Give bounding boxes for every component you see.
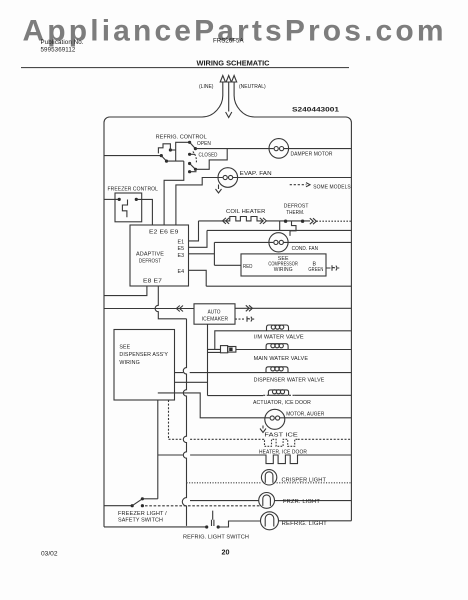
node freezer control left (118, 198, 121, 201)
svg-text:DISPENSER WATER VALVE: DISPENSER WATER VALVE (254, 378, 325, 384)
wire safety switch to freezer lamp (145, 505, 260, 507)
ground auger motor (260, 426, 266, 433)
some models dashed arrow (290, 184, 307, 186)
wire riser to OPEN top contact (176, 142, 190, 161)
svg-text:WIRING: WIRING (119, 360, 139, 366)
wire auger motor to neutral bus (285, 417, 352, 419)
node contact mid (188, 153, 191, 156)
svg-text:SAFETY SWITCH: SAFETY SWITCH (118, 517, 163, 523)
node OPEN top contact (188, 141, 191, 144)
svg-text:COIL HEATER: COIL HEATER (226, 209, 266, 215)
svg-text:(LINE): (LINE) (199, 84, 214, 90)
switch blade OPEN (190, 142, 196, 148)
heater ice door (teeth below wire) (264, 455, 298, 464)
switch blade freezer light / safety switch (132, 499, 142, 506)
wire E4 to riser (189, 270, 207, 286)
freezer thermostat squiggle (122, 200, 127, 218)
freezer control box (115, 193, 142, 222)
svg-text:FRS26F5A: FRS26F5A (213, 38, 244, 45)
wire crisper dotted row from vertical (187, 482, 352, 484)
ground evap fan (216, 185, 222, 194)
power cord plug prong NEUTRAL (232, 76, 237, 96)
wire heater ice door row (158, 454, 352, 456)
lamp crisper light (261, 470, 276, 485)
cord right curve to neutral bus (234, 96, 254, 118)
wire actuator to neutral bus (294, 394, 351, 396)
coil heater element (defrost heater) (222, 217, 262, 221)
svg-text:SEE: SEE (119, 344, 130, 350)
wire compressor RED feed (214, 264, 241, 266)
wire I/M valve branch riser (215, 331, 267, 350)
svg-text:E8 E7: E8 E7 (143, 279, 162, 285)
wire switch node to E6 riser (164, 161, 184, 225)
svg-text:E1: E1 (178, 239, 185, 245)
lamp freezer light (259, 493, 275, 509)
wire E5 riser (189, 230, 208, 247)
node refrig light switch left (205, 525, 208, 528)
wire top border right segment (255, 117, 352, 123)
actuator coil dashes (263, 394, 294, 396)
svg-text:E5: E5 (178, 246, 185, 252)
wire line bus to safety switch (104, 505, 132, 507)
wire icemaker to neutral bus (235, 307, 351, 309)
svg-text:I/M WATER VALVE: I/M WATER VALVE (254, 334, 304, 340)
node safety switch common (131, 504, 134, 507)
wire top border left segment (104, 117, 202, 123)
svg-text:WIRING: WIRING (274, 267, 293, 273)
node contact lower (188, 162, 191, 165)
wire bottom border to refrig light switch (104, 526, 207, 528)
node CLOSED contact (194, 168, 197, 171)
svg-text:EVAP. FAN: EVAP. FAN (240, 171, 272, 177)
svg-text:FREEZER LIGHT /: FREEZER LIGHT / (118, 511, 167, 517)
svg-text:HEATER, ICE DOOR: HEATER, ICE DOOR (259, 449, 307, 455)
svg-text:GREEN: GREEN (308, 267, 323, 273)
svg-text:SOME MODELS: SOME MODELS (313, 185, 351, 191)
svg-text:MOTOR, AUGER: MOTOR, AUGER (286, 411, 324, 417)
node defrost therm left (284, 220, 287, 223)
node refrig control common (160, 154, 163, 157)
wire main valve to neutral bus (288, 349, 351, 351)
svg-text:(NEUTRAL): (NEUTRAL) (239, 84, 266, 90)
connector block main water valve (221, 346, 228, 353)
svg-text:REFRIG. LIGHT SWITCH: REFRIG. LIGHT SWITCH (183, 534, 249, 540)
svg-text:OPEN: OPEN (197, 141, 211, 147)
svg-text:ICEMAKER: ICEMAKER (202, 317, 229, 323)
node blade end (165, 160, 168, 163)
svg-text:5995369112: 5995369112 (41, 47, 76, 54)
node OPEN contact (194, 147, 197, 150)
wire icemaker aux output with connector (235, 318, 246, 320)
node safety switch upper contact (141, 497, 144, 500)
node refrig light switch right (217, 525, 220, 528)
node freezer control right (135, 198, 138, 201)
wire defrost row dashed to neutral bus (316, 220, 351, 222)
wire E3 to riser (189, 253, 215, 255)
wire E1 to coil heater riser (189, 221, 199, 241)
svg-text:WIRING SCHEMATIC: WIRING SCHEMATIC (197, 58, 271, 67)
cond fan motor M3 (269, 233, 288, 252)
wire right bus (neutral side) (350, 123, 352, 521)
ground arrow under center prong (226, 112, 232, 118)
cam switch dashed arc (193, 152, 197, 164)
connector chevrons icemaker right (246, 305, 253, 311)
wire CLOSED contact Z-link to damper wire (196, 149, 228, 170)
svg-text:CLOSED: CLOSED (199, 153, 218, 159)
solenoid actuator ice door (268, 390, 288, 395)
svg-text:E2 E6 E9: E2 E6 E9 (149, 230, 179, 236)
sensor stub with dot (169, 148, 172, 151)
adaptive defrost control board (130, 225, 189, 286)
wire E7 drop with hop over icemaker wire (155, 286, 186, 319)
svg-text:REFRIG. LIGHT: REFRIG. LIGHT (282, 521, 328, 527)
refrig light switch plunger (212, 511, 214, 526)
wire GREEN to chassis ground connector (326, 265, 339, 270)
wire switch to refrig lamp (218, 521, 260, 527)
refrig control sensing bulb squiggle (158, 144, 170, 154)
wire E4 row to neutral bus (206, 285, 351, 287)
power cord plug prong ground (center) (226, 76, 231, 112)
wire E5 row to neutral bus (207, 229, 351, 231)
wire line bus feed to refrig control (104, 155, 161, 157)
wire E9 riser to evap fan (176, 178, 218, 226)
svg-text:DAMPER MOTOR: DAMPER MOTOR (291, 151, 333, 157)
wire line bus to icemaker (104, 308, 194, 310)
svg-text:DEFROST: DEFROST (284, 203, 309, 209)
wire I/M valve to neutral bus (289, 330, 352, 332)
damper motor M1 (269, 139, 289, 159)
svg-text:20: 20 (222, 548, 230, 557)
wire line bus to freezer control (104, 198, 119, 200)
svg-text:ADAPTIVE: ADAPTIVE (136, 251, 164, 257)
node defrost therm right (301, 220, 304, 223)
wire actuator row from riser (208, 395, 264, 397)
svg-text:ACTUATOR, ICE DOOR: ACTUATOR, ICE DOOR (253, 400, 311, 406)
wire dispenser box to actuator feed (175, 381, 208, 383)
wire OPEN contact to damper motor (195, 148, 269, 150)
wire cond fan feed (214, 241, 269, 243)
wire switch node horizontal (167, 160, 184, 162)
connector chevrons right (260, 218, 267, 224)
wire to main valve connector (208, 349, 221, 352)
connector chevrons icemaker left (176, 306, 183, 312)
evap fan motor M2 (218, 168, 238, 188)
heater fast ice (dashed teeth below wire) (263, 439, 298, 446)
compressor wiring box (241, 254, 326, 276)
svg-text:E3: E3 (178, 253, 185, 259)
coil heater row: wire (199, 220, 223, 222)
wire E8 to line bus (104, 286, 147, 296)
wire to defrost thermostat (266, 220, 310, 222)
svg-text:03/02: 03/02 (41, 551, 58, 558)
wire cond fan to neutral bus (288, 241, 351, 243)
solenoid dispenser water valve (266, 367, 288, 373)
defrost thermostat bypass bracket (280, 221, 296, 236)
dispenser assembly box (114, 330, 175, 401)
svg-text:FREEZER CONTROL: FREEZER CONTROL (108, 186, 159, 192)
connector chevrons left (223, 218, 230, 224)
auger motor M4 (265, 409, 285, 429)
svg-text:DISPENSER ASS'Y: DISPENSER ASS'Y (119, 352, 168, 358)
svg-text:MAIN WATER VALVE: MAIN WATER VALVE (254, 356, 309, 362)
wire upper contact to riser (142, 498, 157, 500)
svg-text:FRZR. LIGHT: FRZR. LIGHT (283, 499, 321, 505)
node safety switch lower contact (141, 504, 144, 507)
switch blade CLOSED (190, 164, 196, 170)
wire refrig lamp to neutral bus (279, 520, 352, 522)
power cord plug prong LINE (220, 76, 225, 96)
svg-text:COND. FAN: COND. FAN (292, 246, 319, 252)
svg-text:AUTO: AUTO (208, 310, 221, 316)
svg-text:THERM.: THERM. (286, 210, 304, 216)
svg-text:REFRIG. CONTROL: REFRIG. CONTROL (156, 135, 207, 141)
auto icemaker box (194, 304, 235, 324)
wire icemaker bottom drop (207, 324, 209, 395)
svg-text:RED: RED (243, 264, 253, 270)
wire fast ice dashed row (169, 438, 352, 440)
wire dispenser valve row junction to bus (288, 372, 351, 374)
svg-text:CRISPER LIGHT: CRISPER LIGHT (282, 477, 327, 483)
wire safety-switch riser (dispenser box bottom drop) (157, 400, 159, 499)
node bottom contact (188, 170, 191, 173)
switch blade refrig control common (161, 156, 166, 162)
connector chevrons after therm (310, 218, 317, 224)
wire freezer control to E2 riser (136, 199, 152, 225)
cord left curve to line bus (202, 96, 223, 118)
wire E3 riser (cond fan / compressor) (213, 242, 215, 265)
wire evap fan to neutral bus (238, 177, 352, 179)
svg-text:DEFROST: DEFROST (139, 258, 162, 264)
wire connector to main valve (236, 349, 266, 351)
wire damper motor to neutral bus (289, 148, 352, 150)
header rule (21, 67, 349, 69)
svg-text:FAST ICE: FAST ICE (264, 433, 298, 439)
solenoid I/M water valve (267, 325, 289, 331)
wire long vertical E7 feed with crossover hops (183, 319, 186, 483)
svg-text:E4: E4 (178, 269, 185, 275)
lamp refrig light (261, 512, 279, 530)
wire auger feed from safety-switch riser (158, 393, 265, 418)
wire fast-ice dashed riser (168, 400, 170, 439)
svg-text:Publication No.: Publication No. (41, 39, 84, 46)
solenoid main water valve (266, 344, 288, 350)
wire frzr light row (190, 500, 351, 502)
wire left bus (line side) (103, 123, 105, 527)
svg-text:S240443001: S240443001 (292, 107, 340, 114)
wire dispenser box to dispenser valve row (175, 372, 267, 374)
